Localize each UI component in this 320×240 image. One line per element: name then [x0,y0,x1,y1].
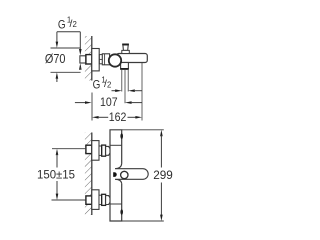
dimension O70 extension lines [51,48,81,72]
dimension G1/2 lower label [93,76,112,92]
lever marker tick [113,172,117,177]
svg-text:150±15: 150±15 [37,167,75,181]
dimension 150+-15 extension lines [52,149,86,200]
shower outlet stub (below body) [120,63,128,70]
extension line from wall face (dim 107/162) [91,93,93,121]
wall hatch (side view) [85,36,92,81]
top escutcheon (top view) [92,141,99,161]
svg-text:107: 107 [100,95,118,109]
dimension 162 row [92,110,142,124]
diverter knob (on top of body) [122,44,130,53]
extension lines from shower outlet [122,70,128,103]
top S-union nut (behind wall) [86,145,92,153]
svg-text:G: G [93,79,101,92]
dimension O70 arrows [56,32,59,82]
svg-text:299: 299 [153,168,173,182]
O70 text [45,52,66,66]
299 text [153,168,173,182]
dimension G1/2 top label [58,15,77,31]
inlet union nut [86,55,92,64]
svg-text:Ø70: Ø70 [45,52,66,66]
connector ring [99,55,102,64]
svg-text:162: 162 [109,110,127,124]
leader line G1/2 top [57,32,82,70]
top hex nut [102,145,106,156]
svg-text:G: G [58,19,66,32]
bottom escutcheon (top view) [92,190,99,210]
mixer body (top view) [110,130,122,221]
150+-15 text [37,167,75,181]
dimension 150+-15 line and arrows [56,149,59,200]
svg-text:2: 2 [107,80,111,89]
bottom union ring [99,195,102,204]
bottom S-union nut (behind wall) [86,196,92,204]
hex union (side view) [102,54,109,65]
dimension 299 extension lines [122,130,164,221]
wall hatch (top view) [85,133,92,216]
mixer body (side view) [117,54,148,63]
aerator circle (top view) [121,171,128,178]
svg-text:2: 2 [73,20,77,29]
dimension 107 row [75,95,142,109]
spout (top view, trumpet root, pointing right) [115,164,148,184]
bottom check-valve cone [106,196,112,205]
bottom handle grip tick [120,209,123,215]
inlet pipe G1/2 (through wall) [80,56,86,63]
top check-valve cone [106,146,112,155]
dimension G1/2 arrows (outlet thread) [112,89,143,92]
top union ring [99,146,102,155]
extension line from spout end [141,63,143,121]
bottom hex nut [102,194,106,205]
top handle grip tick [120,133,123,139]
dimension 299 line and arrows [160,130,163,221]
ball joint circle [109,54,121,66]
escutcheon O70 (side view) [92,49,99,71]
